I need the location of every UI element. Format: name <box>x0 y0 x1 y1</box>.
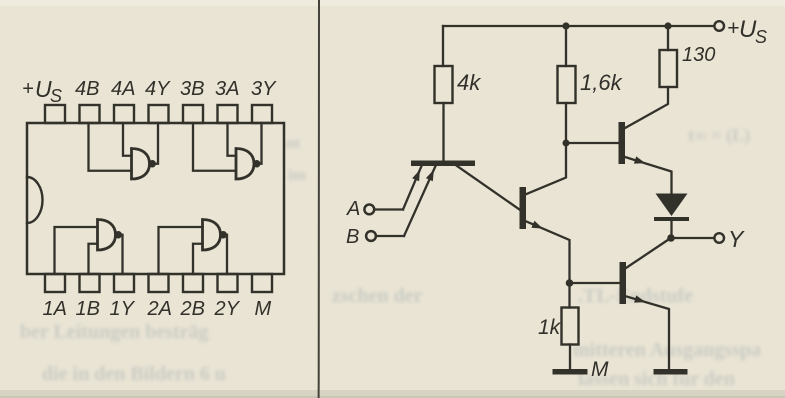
wire gate N1 output to pin 1Y <box>121 235 122 274</box>
wire node K to V3 base <box>566 142 619 144</box>
svg-text:+: + <box>727 17 739 40</box>
gate N4 output bubble <box>149 161 155 167</box>
terminal B <box>366 231 376 241</box>
wire 2B to gate N2 <box>193 244 203 274</box>
transistor V4 base bar (lower output) <box>620 262 627 304</box>
svg-text:3A: 3A <box>215 78 239 100</box>
resistor R2 1.6k <box>558 66 576 103</box>
gate N4 (NAND) body <box>132 149 150 180</box>
svg-text:4Y: 4Y <box>145 78 171 100</box>
pin 3Y <box>252 105 272 123</box>
svg-text:im: im <box>288 167 306 184</box>
wire 4A to gate N4 <box>123 123 132 156</box>
ground M (left) <box>553 369 588 375</box>
pin 3B <box>183 105 203 123</box>
wire rail to R3 130 <box>667 26 669 50</box>
wire R4 to ground <box>569 345 571 370</box>
wire input A <box>374 208 403 210</box>
gate N2 (NAND) body <box>203 220 221 251</box>
terminal A <box>364 205 374 215</box>
pin 1Y <box>114 274 134 292</box>
svg-text:4k: 4k <box>457 70 481 95</box>
svg-text:S: S <box>755 27 767 47</box>
pin 2A <box>149 274 169 292</box>
V3 collector wire to R3 <box>625 87 668 128</box>
svg-text:Y: Y <box>728 226 745 252</box>
pin 2Y <box>218 274 238 292</box>
wire node L to V4 base <box>570 282 620 284</box>
pin 4B <box>80 105 100 123</box>
pin 3A <box>218 105 238 123</box>
wire R1 to V1 base <box>442 103 444 161</box>
resistor R4 1k <box>562 308 579 345</box>
resistor R3 130 <box>660 50 678 87</box>
wire node Y to terminal <box>671 237 714 239</box>
svg-text:t∞ = (L): t∞ = (L) <box>688 125 750 146</box>
svg-text:S: S <box>50 86 62 106</box>
wire input B <box>376 235 404 237</box>
svg-text:M: M <box>591 358 609 381</box>
pin 1A <box>45 274 65 292</box>
pin M (pin 7) <box>252 274 272 292</box>
svg-text:.TL-Endstufe: .TL-Endstufe <box>578 285 693 307</box>
svg-text:130: 130 <box>682 44 715 66</box>
gate N1 output bubble <box>115 232 121 238</box>
svg-text:zschen der: zschen der <box>332 285 423 307</box>
page divider rule <box>318 0 320 398</box>
wire 1B to gate N1 <box>89 244 98 274</box>
pin 4A <box>114 105 134 123</box>
wire 4B to gate N4 <box>89 123 132 171</box>
wire gate N2 output to pin 2Y <box>225 235 228 274</box>
V4 emitter wire <box>627 297 670 370</box>
ground (right) <box>654 369 688 375</box>
V4 collector wire to node Y <box>626 240 669 269</box>
V3 emitter arrow <box>634 156 646 163</box>
transistor V1 base bar (multi-emitter input) <box>411 161 475 167</box>
junction node rail/1.6k <box>562 22 569 29</box>
svg-text:4B: 4B <box>75 78 99 100</box>
V1 emitter 2 arrow <box>426 170 434 182</box>
pin 1B <box>80 274 100 292</box>
wire 2A to gate N2 <box>159 227 203 274</box>
terminal Y <box>714 233 724 243</box>
svg-text:nt: nt <box>286 135 301 152</box>
svg-text:1A: 1A <box>43 298 67 320</box>
gate N3 output bubble <box>254 161 260 167</box>
junction node Y <box>667 234 675 242</box>
diode V5 cathode bar <box>654 217 689 221</box>
junction node L (V2 emitter / R4 / V4 base) <box>566 279 574 287</box>
wire R2 to node K <box>565 103 567 143</box>
svg-text:4A: 4A <box>111 78 135 100</box>
transistor V3 base bar (upper output) <box>619 122 626 164</box>
svg-text:2B: 2B <box>180 298 205 320</box>
gate N3 (NAND) body <box>236 149 254 180</box>
gate N1 (NAND) body <box>98 220 116 251</box>
V2 emitter wire <box>527 222 570 308</box>
wire +US supply rail <box>443 25 714 27</box>
svg-text:1k: 1k <box>538 316 562 339</box>
pin 2B <box>183 274 203 292</box>
wire node K down to V2 collector <box>527 143 567 194</box>
junction node rail/130 <box>664 22 671 29</box>
svg-text:ber Leitungen besträg: ber Leitungen besträg <box>20 321 209 343</box>
IC body U1 <box>27 123 284 274</box>
wire 3B to gate N3 <box>193 123 236 171</box>
svg-text:2Y: 2Y <box>214 298 241 320</box>
gate N2 output bubble <box>220 232 226 238</box>
junction node K (V2 collector / V3 base) <box>563 140 570 147</box>
V3 emitter wire <box>625 157 672 194</box>
svg-text:1B: 1B <box>76 298 100 320</box>
transistor V2 base bar (phase splitter) <box>520 187 527 229</box>
V1 emitter 1 arrow <box>412 170 420 182</box>
V1 collector wire to V2 base <box>457 166 520 210</box>
svg-text:+: + <box>22 78 34 100</box>
resistor R1 4k <box>435 66 453 103</box>
wire gate N4 output to pin 4Y <box>155 123 158 164</box>
svg-text:3Y: 3Y <box>251 78 277 100</box>
wire 1A to gate N1 <box>55 227 98 274</box>
svg-text:die in den Bildern 6 u: die in den Bildern 6 u <box>42 363 226 385</box>
pin +US (pin 14) <box>45 105 65 123</box>
svg-text:2A: 2A <box>147 298 172 320</box>
wire diode to node Y <box>670 221 672 238</box>
wire 3A to gate N3 <box>228 123 237 156</box>
svg-text:A: A <box>346 198 360 220</box>
terminal +US <box>714 21 724 31</box>
V1 emitter 2 wire <box>404 166 436 236</box>
diode V5 anode triangle <box>656 194 688 217</box>
svg-text:B: B <box>346 226 359 248</box>
svg-text:M: M <box>255 298 272 320</box>
V4 emitter arrow <box>634 295 646 302</box>
V1 emitter 1 wire <box>403 166 422 210</box>
wire rail to R2 1.6k <box>565 26 567 66</box>
svg-text:1,6k: 1,6k <box>580 70 623 95</box>
svg-text:3B: 3B <box>180 78 204 100</box>
wire rail to R1 4k <box>442 26 444 66</box>
pin 4Y <box>149 105 169 123</box>
V2 emitter arrow <box>531 221 543 229</box>
index notch <box>27 177 42 223</box>
svg-text:1Y: 1Y <box>110 298 136 320</box>
wire gate N3 output to pin 3Y <box>260 123 262 164</box>
